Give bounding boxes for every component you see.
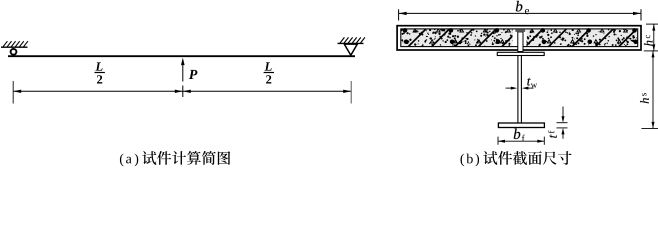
right support ground line	[338, 42, 364, 44]
b_e extension lines	[398, 9, 400, 20]
label b_e	[516, 1, 522, 12]
caption (a)	[120, 151, 230, 166]
right pin support triangle	[344, 44, 357, 55]
h_s dimension	[644, 50, 658, 52]
label b_f	[514, 128, 520, 139]
shear stud head	[515, 29, 525, 32]
label t_w	[527, 78, 530, 86]
label L/2 left	[95, 62, 105, 83]
span dimension line	[13, 90, 351, 92]
h_c dimension	[646, 23, 658, 25]
left support hatching	[3, 41, 28, 47]
left support ground line	[1, 46, 28, 48]
b_f dimension line	[498, 140, 544, 142]
t_w dimension arrows	[506, 87, 515, 89]
b_f extension ticks	[497, 137, 499, 145]
label t_f	[548, 131, 557, 138]
rebar section dots	[403, 28, 638, 44]
concrete hatch texture	[384, 28, 658, 48]
label L/2 right	[264, 62, 274, 83]
load arrow P head	[181, 58, 185, 66]
right extension line	[350, 81, 352, 104]
steel web	[517, 56, 519, 123]
right support hatching	[340, 37, 365, 43]
label P	[189, 70, 198, 79]
beam line	[8, 55, 355, 57]
left extension line	[12, 81, 14, 104]
left roller support circle	[11, 49, 17, 55]
concrete slab outer outline	[397, 26, 641, 50]
label h_c	[644, 35, 653, 46]
dimension arrows	[13, 90, 21, 93]
t_f dimension	[562, 107, 564, 118]
concrete slab inner outline	[401, 29, 638, 47]
load arrow P shaft	[182, 63, 184, 82]
label h_s	[640, 93, 649, 103]
steel top flange	[497, 52, 544, 55]
b_e dimension line	[399, 12, 641, 14]
shear stud shank	[518, 32, 523, 52]
midspan tick	[182, 86, 184, 98]
caption (b)	[461, 151, 572, 166]
steel bottom flange	[498, 123, 544, 128]
